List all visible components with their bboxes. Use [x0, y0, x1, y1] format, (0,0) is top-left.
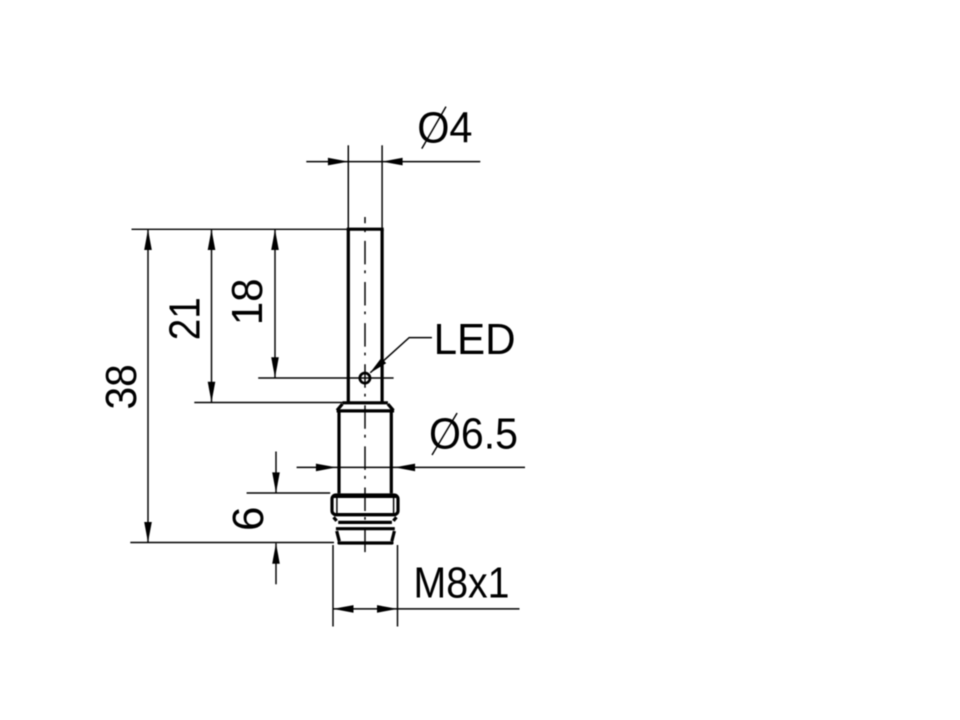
Ø4 arrow pointing left	[382, 158, 403, 166]
21 arrow down	[208, 382, 216, 403]
M8 arrow pointing right	[377, 605, 398, 613]
tube bottom shoulder line	[343, 401, 388, 404]
bottom cap right slant	[392, 531, 395, 541]
collar bottom band	[334, 513, 396, 516]
flange chamfer right	[388, 404, 394, 410]
svg-text:O6.5: O6.5	[429, 409, 518, 458]
M8x1 dimension line	[333, 608, 520, 610]
18 extension line through LED	[258, 377, 393, 379]
Ø6.5 arrow pointing right	[316, 464, 337, 472]
body left wall	[337, 411, 340, 494]
21 dimension line	[211, 230, 213, 402]
Ø6.5 slash extension	[432, 413, 457, 455]
21 extension line	[194, 402, 346, 404]
Ø4 extension line right	[381, 145, 383, 229]
body right wall	[390, 411, 393, 494]
top extension line at tube top	[132, 228, 347, 230]
Ø6.5 dimension line	[297, 466, 525, 468]
thread ring lower	[336, 527, 395, 530]
Ø6.5 arrow pointing left	[395, 464, 416, 472]
bottom cap bottom edge	[339, 541, 392, 544]
6 lower arrow stem	[275, 543, 277, 584]
6 lower arrowhead pointing up	[272, 543, 280, 564]
Ø4 slash extension	[422, 107, 446, 149]
thread relief slant left	[334, 517, 337, 521]
svg-text:21: 21	[161, 297, 210, 340]
Ø4 dimension line	[306, 161, 480, 163]
sensor tube left wall	[347, 229, 350, 403]
21 arrow up	[208, 230, 216, 251]
18 arrow up	[271, 230, 279, 251]
svg-text:6: 6	[224, 506, 273, 530]
18 dimension line	[274, 230, 276, 378]
bottom extension line at thread end	[130, 542, 334, 544]
svg-text:O4: O4	[417, 104, 472, 153]
6 top extension line	[247, 492, 331, 494]
38 dimension line	[147, 230, 149, 543]
svg-text:M8x1: M8x1	[414, 559, 510, 608]
bottom cap left slant	[337, 531, 340, 541]
flange top line of body	[337, 409, 395, 412]
svg-text:LED: LED	[434, 315, 516, 364]
38 arrow up	[144, 230, 152, 251]
6 upper arrow stem	[275, 452, 277, 493]
Ø4 arrow pointing right	[328, 158, 349, 166]
6 upper arrowhead pointing down	[272, 472, 280, 493]
svg-text:38: 38	[97, 364, 146, 409]
collar chamfer line left	[336, 496, 338, 516]
collar top band	[334, 495, 396, 498]
M8 extension line left	[332, 545, 334, 627]
Ø4 extension line left	[347, 145, 349, 229]
thread relief slant right	[393, 517, 396, 521]
sensor tube right wall	[381, 229, 384, 403]
M8 arrow pointing left	[333, 605, 354, 613]
sensor tube top edge	[347, 228, 384, 231]
M8 extension line right	[397, 545, 399, 627]
LED indicator circle	[360, 373, 370, 383]
thread ring upper	[338, 521, 392, 524]
LED leader arrowhead	[370, 358, 387, 373]
LED leader line	[370, 338, 432, 373]
flange chamfer left	[337, 404, 342, 410]
18 arrow down	[271, 357, 279, 378]
centerline (vertical dash-dot axis)	[364, 217, 366, 557]
connector collar rounded outline	[332, 495, 398, 515]
svg-text:18: 18	[223, 278, 272, 325]
38 arrow down	[144, 522, 152, 543]
collar chamfer line right	[393, 496, 395, 516]
